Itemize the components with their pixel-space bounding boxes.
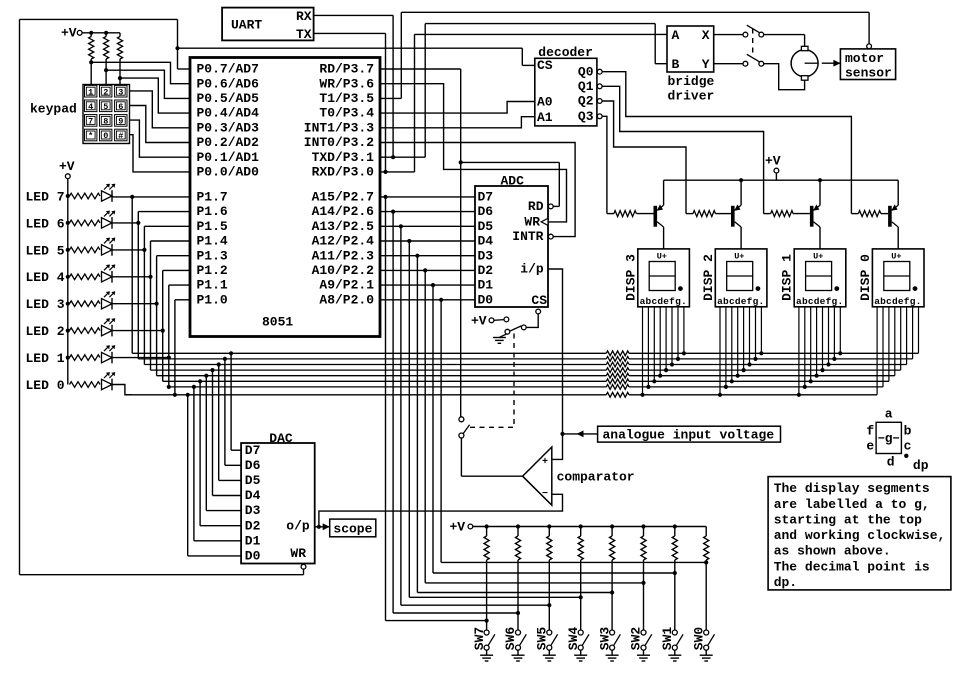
- svg-text:7: 7: [88, 117, 93, 127]
- svg-text:i/p: i/p: [520, 262, 544, 277]
- svg-text:8: 8: [103, 117, 108, 127]
- svg-text:D5: D5: [245, 473, 261, 488]
- svg-text:A10/P2.2: A10/P2.2: [312, 263, 375, 278]
- svg-text:SW2: SW2: [629, 627, 644, 651]
- svg-text:4: 4: [88, 102, 93, 112]
- svg-text:#: #: [118, 131, 123, 141]
- svg-text:b: b: [904, 423, 912, 438]
- svg-text:U+: U+: [734, 251, 744, 261]
- svg-text:D0: D0: [478, 292, 494, 307]
- svg-text:RXD/P3.0: RXD/P3.0: [312, 165, 375, 180]
- svg-text:D4: D4: [245, 488, 261, 503]
- svg-text:D2: D2: [478, 263, 494, 278]
- svg-text:D1: D1: [478, 278, 494, 293]
- svg-text:SW1: SW1: [660, 627, 675, 651]
- svg-text:A1: A1: [537, 110, 553, 125]
- svg-text:+V: +V: [471, 313, 487, 328]
- svg-text:A8/P2.0: A8/P2.0: [319, 292, 374, 307]
- svg-text:B: B: [672, 57, 680, 72]
- svg-text:T0/P3.4: T0/P3.4: [319, 106, 374, 121]
- svg-text:Y: Y: [702, 57, 710, 72]
- svg-text:D5: D5: [478, 219, 494, 234]
- svg-text:are labelled a to g,: are labelled a to g,: [774, 497, 930, 512]
- svg-text:.: .: [916, 296, 922, 307]
- svg-text:+V: +V: [450, 520, 466, 535]
- svg-text:DISP 2: DISP 2: [701, 254, 716, 301]
- svg-text:P1.3: P1.3: [197, 248, 228, 263]
- svg-text:SW4: SW4: [566, 627, 581, 651]
- svg-text:a: a: [885, 407, 893, 422]
- svg-text:*: *: [88, 131, 93, 141]
- svg-text:−: −: [542, 489, 548, 500]
- svg-text:INT1/P3.3: INT1/P3.3: [304, 120, 374, 135]
- svg-text:.: .: [681, 296, 687, 307]
- svg-text:9: 9: [118, 117, 123, 127]
- svg-text:Q3: Q3: [578, 109, 594, 124]
- svg-text:P0.4/AD4: P0.4/AD4: [197, 106, 260, 121]
- svg-text:DISP 3: DISP 3: [623, 254, 638, 301]
- svg-text:analogue input voltage: analogue input voltage: [603, 428, 775, 443]
- svg-text:g: g: [885, 431, 893, 446]
- svg-text:.: .: [837, 296, 843, 307]
- svg-text:f: f: [866, 423, 874, 438]
- svg-text:SW5: SW5: [535, 627, 550, 651]
- svg-text:The decimal point is: The decimal point is: [774, 559, 930, 574]
- svg-text:WR: WR: [290, 546, 306, 561]
- svg-text:LED 7: LED 7: [26, 189, 65, 204]
- svg-text:o/p: o/p: [286, 518, 310, 533]
- svg-text:INT0/P3.2: INT0/P3.2: [304, 135, 374, 150]
- svg-text:RX: RX: [296, 9, 312, 24]
- svg-text:RD: RD: [528, 199, 544, 214]
- svg-text:P1.1: P1.1: [197, 278, 228, 293]
- svg-text:as shown above.: as shown above.: [774, 544, 891, 559]
- svg-text:A0: A0: [537, 95, 553, 110]
- svg-text:D2: D2: [245, 518, 261, 533]
- svg-text:bridge: bridge: [668, 74, 715, 89]
- svg-text:T1/P3.5: T1/P3.5: [319, 91, 374, 106]
- svg-text:+V: +V: [59, 159, 75, 174]
- svg-text:D3: D3: [245, 503, 261, 518]
- svg-text:D7: D7: [245, 443, 261, 458]
- svg-text:LED 5: LED 5: [26, 243, 65, 258]
- svg-text:U+: U+: [657, 251, 667, 261]
- svg-text:P0.3/AD3: P0.3/AD3: [197, 120, 260, 135]
- svg-text:scope: scope: [333, 521, 372, 536]
- svg-text:c: c: [904, 438, 912, 453]
- svg-text:driver: driver: [668, 88, 715, 103]
- svg-text:U+: U+: [891, 251, 901, 261]
- svg-text:D3: D3: [478, 248, 494, 263]
- svg-text:and working clockwise,: and working clockwise,: [774, 528, 946, 543]
- svg-text:INTR: INTR: [512, 229, 543, 244]
- svg-text:LED 0: LED 0: [26, 378, 65, 393]
- svg-text:keypad: keypad: [30, 101, 77, 116]
- svg-text:A11/P2.3: A11/P2.3: [312, 248, 375, 263]
- svg-text:P0.2/AD2: P0.2/AD2: [197, 135, 260, 150]
- svg-text:SW3: SW3: [597, 627, 612, 651]
- svg-text:SW6: SW6: [503, 627, 518, 651]
- svg-text:1: 1: [88, 87, 93, 97]
- svg-text:ADC: ADC: [501, 173, 525, 188]
- svg-text:d: d: [887, 455, 895, 470]
- svg-text:dp: dp: [913, 458, 929, 473]
- svg-text:A15/P2.7: A15/P2.7: [312, 190, 374, 205]
- svg-text:8051: 8051: [262, 314, 293, 329]
- svg-text:D0: D0: [245, 549, 261, 564]
- svg-text:P1.2: P1.2: [197, 263, 228, 278]
- svg-text:+V: +V: [765, 154, 781, 169]
- svg-text:LED 6: LED 6: [26, 216, 65, 231]
- svg-text:motor: motor: [845, 51, 884, 66]
- svg-text:A13/P2.5: A13/P2.5: [312, 219, 375, 234]
- svg-text:3: 3: [118, 87, 123, 97]
- svg-text:e: e: [866, 438, 874, 453]
- svg-text:RD/P3.7: RD/P3.7: [319, 62, 374, 77]
- svg-text:A12/P2.4: A12/P2.4: [312, 234, 375, 249]
- svg-text:D1: D1: [245, 533, 261, 548]
- svg-text:P1.6: P1.6: [197, 204, 228, 219]
- svg-text:D7: D7: [478, 190, 494, 205]
- svg-text:P1.7: P1.7: [197, 190, 228, 205]
- svg-text:P0.1/AD1: P0.1/AD1: [197, 150, 260, 165]
- svg-text:sensor: sensor: [845, 65, 892, 80]
- svg-text:D6: D6: [245, 458, 261, 473]
- svg-text:DISP 1: DISP 1: [780, 254, 795, 301]
- svg-text:TX: TX: [296, 27, 312, 42]
- svg-text:SW0: SW0: [691, 627, 706, 651]
- svg-text:SW7: SW7: [472, 627, 487, 650]
- svg-text:P1.4: P1.4: [197, 234, 228, 249]
- svg-text:TXD/P3.1: TXD/P3.1: [312, 150, 375, 165]
- svg-text:CS: CS: [537, 58, 553, 73]
- svg-text:.: .: [759, 296, 765, 307]
- svg-text:DISP 0: DISP 0: [858, 254, 873, 301]
- svg-text:WR/P3.6: WR/P3.6: [319, 76, 374, 91]
- svg-text:WR: WR: [524, 215, 540, 230]
- svg-text:5: 5: [103, 102, 108, 112]
- svg-text:LED 2: LED 2: [26, 324, 65, 339]
- svg-text:starting at the top: starting at the top: [774, 512, 922, 527]
- svg-text:+: +: [542, 457, 548, 468]
- svg-text:Q0: Q0: [578, 64, 594, 79]
- svg-text:P0.6/AD6: P0.6/AD6: [197, 76, 260, 91]
- svg-text:X: X: [702, 28, 710, 43]
- svg-text:Q1: Q1: [578, 79, 594, 94]
- svg-text:P0.5/AD5: P0.5/AD5: [197, 91, 260, 106]
- svg-text:P0.0/AD0: P0.0/AD0: [197, 165, 260, 180]
- svg-text:A9/P2.1: A9/P2.1: [319, 278, 374, 293]
- svg-text:U+: U+: [813, 251, 823, 261]
- svg-text:A: A: [672, 28, 680, 43]
- svg-text:UART: UART: [231, 17, 262, 32]
- svg-text:+V: +V: [61, 26, 77, 41]
- svg-text:LED 3: LED 3: [26, 297, 65, 312]
- svg-text:6: 6: [118, 102, 123, 112]
- svg-text:A14/P2.6: A14/P2.6: [312, 204, 375, 219]
- svg-text:dp.: dp.: [774, 575, 797, 590]
- svg-text:DAC: DAC: [269, 431, 293, 446]
- svg-text:P0.7/AD7: P0.7/AD7: [197, 62, 259, 77]
- svg-text:P1.0: P1.0: [197, 292, 228, 307]
- svg-text:P1.5: P1.5: [197, 219, 228, 234]
- svg-text:comparator: comparator: [557, 470, 635, 485]
- svg-text:Q2: Q2: [578, 94, 594, 109]
- svg-text:D4: D4: [478, 234, 494, 249]
- svg-text:CS: CS: [531, 293, 547, 308]
- svg-text:The display segments: The display segments: [774, 481, 930, 496]
- svg-text:LED 1: LED 1: [26, 351, 65, 366]
- svg-text:D6: D6: [478, 204, 494, 219]
- svg-text:0: 0: [103, 131, 108, 141]
- svg-text:LED 4: LED 4: [26, 270, 65, 285]
- svg-text:2: 2: [103, 87, 108, 97]
